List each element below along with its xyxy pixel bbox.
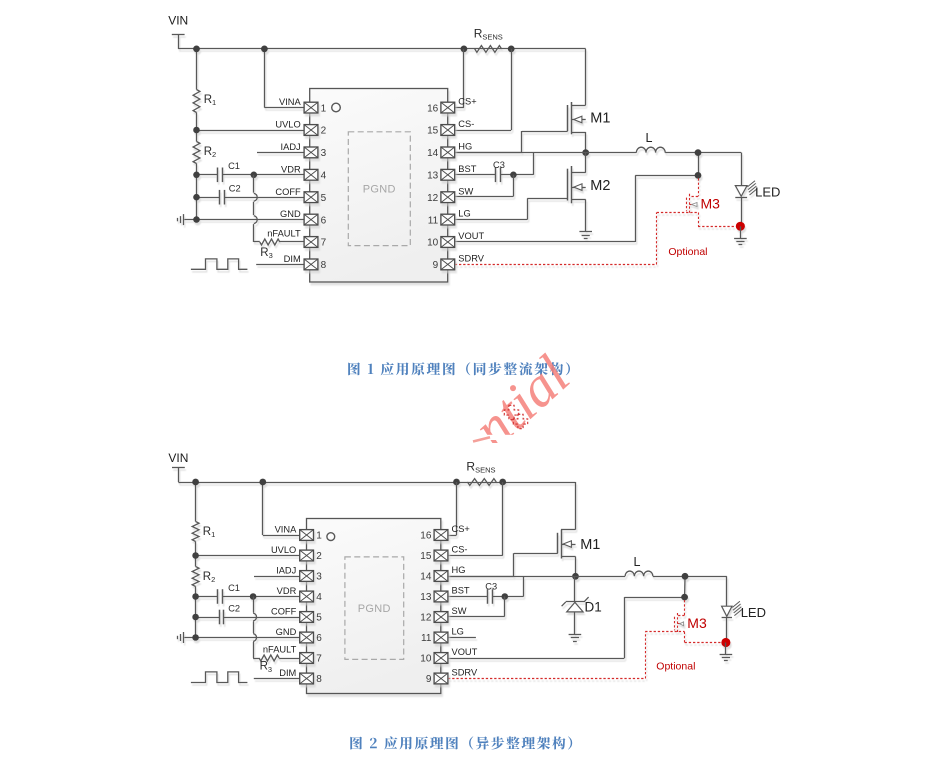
svg-text:6: 6 [321, 215, 327, 226]
svg-text:LG: LG [452, 627, 464, 637]
svg-text:2: 2 [316, 551, 322, 562]
svg-text:CS+: CS+ [458, 97, 476, 107]
svg-text:Optional: Optional [656, 661, 695, 673]
svg-text:C2: C2 [229, 184, 241, 194]
svg-text:4: 4 [316, 592, 322, 603]
svg-text:9: 9 [433, 260, 439, 271]
svg-text:C1: C1 [228, 161, 240, 171]
svg-text:VOUT: VOUT [458, 231, 484, 241]
svg-text:7: 7 [321, 238, 327, 249]
svg-text:12: 12 [427, 193, 439, 204]
svg-text:DIM: DIM [279, 668, 296, 678]
svg-text:CS-: CS- [458, 119, 474, 129]
svg-text:R2: R2 [204, 146, 216, 159]
svg-text:8: 8 [316, 674, 322, 685]
svg-text:UVLO: UVLO [271, 545, 296, 555]
svg-text:COFF: COFF [271, 607, 297, 617]
svg-text:nFAULT: nFAULT [267, 229, 301, 239]
svg-text:IADJ: IADJ [276, 566, 296, 576]
svg-text:HG: HG [458, 142, 472, 152]
svg-text:16: 16 [420, 531, 432, 542]
svg-text:10: 10 [427, 238, 439, 249]
svg-text:CS+: CS+ [452, 524, 470, 534]
svg-text:12: 12 [420, 613, 432, 624]
svg-text:R1: R1 [204, 94, 216, 107]
svg-text:R3: R3 [260, 661, 272, 674]
svg-text:M2: M2 [590, 178, 610, 194]
svg-text:VDR: VDR [281, 164, 301, 174]
svg-text:11: 11 [428, 215, 439, 226]
svg-text:11: 11 [421, 633, 432, 644]
svg-text:nFAULT: nFAULT [263, 645, 297, 655]
svg-text:GND: GND [276, 627, 297, 637]
svg-text:GND: GND [280, 209, 301, 219]
svg-text:BST: BST [452, 586, 470, 596]
svg-text:VDR: VDR [277, 586, 297, 596]
svg-text:LG: LG [458, 209, 470, 219]
svg-text:Optional: Optional [668, 246, 707, 258]
svg-text:C3: C3 [485, 582, 497, 592]
svg-text:3: 3 [321, 148, 327, 159]
svg-text:9: 9 [426, 674, 432, 685]
svg-text:COFF: COFF [275, 187, 301, 197]
svg-text:RSENS: RSENS [474, 26, 503, 41]
svg-text:VOUT: VOUT [452, 647, 478, 657]
svg-text:R1: R1 [203, 526, 215, 539]
svg-text:BST: BST [458, 164, 476, 174]
svg-text:LED: LED [741, 605, 766, 620]
svg-text:5: 5 [316, 613, 322, 624]
svg-text:CS-: CS- [452, 545, 468, 555]
svg-text:ntial: ntial [462, 344, 582, 461]
svg-text:5: 5 [321, 193, 327, 204]
svg-text:M3: M3 [687, 615, 707, 631]
svg-text:SDRV: SDRV [458, 254, 484, 264]
svg-text:VIN: VIN [168, 451, 188, 465]
svg-text:7: 7 [316, 654, 322, 665]
svg-text:14: 14 [427, 148, 439, 159]
svg-text:PGND: PGND [363, 184, 396, 196]
svg-text:13: 13 [420, 592, 432, 603]
svg-text:6: 6 [316, 633, 322, 644]
svg-text:VINA: VINA [275, 525, 297, 535]
svg-text:10: 10 [420, 654, 432, 665]
svg-text:R3: R3 [260, 247, 272, 260]
svg-text:PGND: PGND [358, 603, 391, 615]
svg-text:1: 1 [316, 531, 322, 542]
svg-text:3: 3 [316, 572, 322, 583]
svg-text:C1: C1 [228, 583, 240, 593]
svg-text:M1: M1 [590, 111, 610, 127]
svg-text:UVLO: UVLO [275, 120, 300, 130]
svg-text:2: 2 [321, 126, 327, 137]
svg-text:L: L [646, 131, 653, 145]
svg-text:DIM: DIM [284, 254, 301, 264]
svg-text:HG: HG [452, 565, 466, 575]
svg-text:15: 15 [427, 126, 439, 137]
svg-text:M3: M3 [701, 196, 721, 212]
svg-text:C3: C3 [493, 160, 505, 170]
svg-text:4: 4 [321, 171, 327, 182]
svg-text:15: 15 [420, 551, 432, 562]
svg-text:1: 1 [321, 103, 327, 114]
svg-text:SW: SW [458, 186, 473, 196]
svg-text:R2: R2 [203, 571, 215, 584]
svg-text:SW: SW [452, 606, 467, 616]
svg-text:16: 16 [427, 103, 439, 114]
svg-text:C2: C2 [228, 603, 240, 613]
svg-text:LED: LED [755, 185, 780, 200]
svg-text:RSENS: RSENS [466, 459, 495, 474]
svg-text:M1: M1 [580, 537, 600, 553]
svg-text:VIN: VIN [168, 14, 188, 28]
svg-text:VINA: VINA [279, 97, 301, 107]
svg-text:L: L [634, 555, 641, 569]
svg-text:D1: D1 [585, 600, 602, 615]
svg-text:8: 8 [321, 260, 327, 271]
svg-text:14: 14 [420, 572, 432, 583]
svg-text:IADJ: IADJ [281, 142, 301, 152]
svg-text:13: 13 [427, 171, 439, 182]
svg-text:SDRV: SDRV [452, 668, 478, 678]
